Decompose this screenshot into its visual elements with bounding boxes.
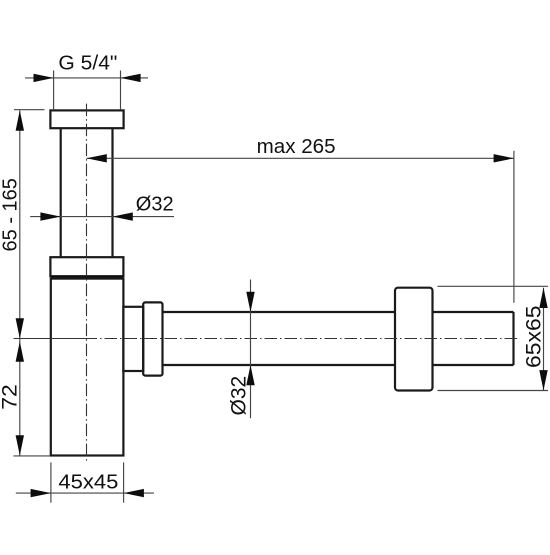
- svg-text:65 - 165: 65 - 165: [0, 178, 21, 251]
- dimension max 265 right extension line: [513, 151, 515, 303]
- dimension 65x65 line: [543, 288, 545, 391]
- dimension max 265 line: [87, 157, 514, 159]
- svg-text:G 5/4": G 5/4": [58, 51, 117, 74]
- dimension 65x65 extension lines: [438, 286, 549, 390]
- svg-text:45x45: 45x45: [58, 470, 118, 493]
- dimension 72 bottom extension line: [14, 455, 51, 457]
- dimension D32 outlet line: [250, 280, 252, 419]
- vertical centerline: [86, 104, 88, 461]
- svg-text:72: 72: [0, 384, 21, 410]
- outlet tube left segment: [163, 312, 396, 365]
- dimension 72 line: [19, 339, 21, 456]
- outlet tube end cap: [512, 312, 514, 365]
- svg-text:65x65: 65x65: [522, 305, 546, 368]
- dimension G 5/4 line: [25, 77, 148, 79]
- seal thick line: [51, 276, 124, 279]
- horizontal centerline: [14, 338, 517, 340]
- wall flange (top rosette): [50, 110, 123, 128]
- outlet tube right segment: [433, 312, 514, 365]
- dimension 65-165 line: [19, 110, 21, 338]
- dimension 45x45 line: [16, 492, 154, 494]
- svg-text:Ø32: Ø32: [136, 193, 174, 215]
- dimension D32 inlet arrows: [40, 212, 132, 220]
- svg-text:max 265: max 265: [257, 136, 336, 158]
- outlet nut ring: [143, 302, 162, 375]
- dimension G 5/4 arrows: [34, 74, 141, 82]
- dimension G 5/4 extension lines: [54, 71, 121, 111]
- dimension 65-165 top extension line: [14, 109, 45, 111]
- dimension D32 inlet line: [30, 216, 174, 218]
- dimension D32 outlet arrows: [246, 292, 254, 386]
- dimension 65x65 arrows: [539, 288, 547, 391]
- svg-text:Ø32: Ø32: [228, 376, 251, 416]
- outlet step collar: [123, 307, 143, 371]
- dimension 72 arrows: [16, 342, 24, 456]
- wall escutcheon block 65x65: [395, 288, 433, 391]
- bottle body 45x45: [51, 279, 124, 456]
- dimension 65-165 arrows: [16, 110, 24, 338]
- dimension 45x45 arrows: [31, 489, 144, 497]
- union nut on bottle top: [50, 257, 123, 276]
- inlet pipe G5/4 vertical: [61, 128, 113, 257]
- dimension 45x45 extension lines: [51, 462, 124, 502]
- dimension max 265 arrows: [87, 154, 514, 162]
